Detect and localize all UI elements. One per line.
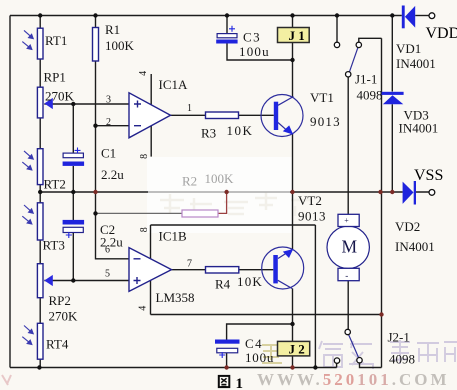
svg-text:J1-1: J1-1	[355, 72, 377, 87]
svg-text:VD1: VD1	[396, 41, 421, 56]
svg-text:9013: 9013	[298, 209, 326, 224]
svg-text:M: M	[342, 237, 358, 257]
svg-text:J 2: J 2	[289, 342, 305, 357]
svg-text:R2: R2	[182, 174, 197, 189]
svg-text:2.2u: 2.2u	[101, 167, 124, 182]
svg-text:J 1: J 1	[289, 28, 305, 43]
svg-text:100K: 100K	[105, 38, 135, 53]
svg-text:6: 6	[105, 245, 110, 256]
svg-text:RT3: RT3	[43, 238, 65, 253]
svg-text:9013: 9013	[310, 114, 341, 129]
svg-text:270K: 270K	[49, 309, 79, 324]
svg-text:WWW.520101.COM: WWW.520101.COM	[257, 370, 450, 389]
svg-text:VSS: VSS	[414, 167, 443, 184]
svg-text:1: 1	[236, 376, 244, 390]
svg-text:IC1A: IC1A	[159, 77, 189, 92]
svg-text:R1: R1	[105, 22, 120, 37]
svg-text:IN4001: IN4001	[395, 239, 435, 254]
svg-text:10K: 10K	[227, 123, 254, 138]
svg-text:C4: C4	[245, 336, 263, 351]
svg-text:4098: 4098	[357, 88, 383, 103]
svg-text:5: 5	[105, 269, 110, 280]
svg-text:4: 4	[138, 71, 149, 76]
svg-text:VDD: VDD	[426, 25, 457, 42]
svg-text:7: 7	[187, 259, 192, 270]
svg-text:IN4001: IN4001	[399, 121, 439, 136]
svg-text:2: 2	[106, 117, 111, 128]
svg-text:3: 3	[106, 95, 111, 106]
svg-text:4: 4	[138, 306, 149, 311]
svg-text:VT1: VT1	[310, 90, 334, 105]
svg-text:C1: C1	[101, 146, 116, 161]
svg-text:100u: 100u	[245, 350, 274, 365]
svg-text:100K: 100K	[205, 171, 235, 186]
svg-text:R4: R4	[215, 277, 231, 292]
svg-text:100u: 100u	[239, 44, 270, 59]
svg-text:RT4: RT4	[46, 337, 69, 352]
svg-text:RP1: RP1	[44, 70, 66, 85]
svg-text:LM358: LM358	[156, 290, 195, 305]
svg-text:RP2: RP2	[49, 293, 71, 308]
svg-text:+: +	[344, 216, 349, 225]
svg-text:J2-1: J2-1	[388, 330, 410, 345]
svg-text:VD2: VD2	[395, 219, 420, 234]
svg-text:8: 8	[139, 227, 150, 232]
svg-text:270K: 270K	[45, 89, 75, 104]
svg-text:4098: 4098	[389, 352, 415, 367]
svg-text:RT2: RT2	[44, 177, 66, 192]
svg-text:IC1B: IC1B	[159, 229, 188, 244]
svg-text:R3: R3	[201, 126, 216, 141]
svg-text:RT1: RT1	[45, 33, 67, 48]
svg-text:1: 1	[187, 103, 192, 114]
svg-text:10K: 10K	[237, 274, 263, 289]
svg-text:VT2: VT2	[298, 193, 322, 208]
svg-text:C3: C3	[243, 30, 261, 45]
svg-text:2.2u: 2.2u	[100, 235, 123, 250]
svg-text:-: -	[345, 271, 348, 281]
svg-text:8: 8	[139, 154, 150, 159]
svg-text:IN4001: IN4001	[396, 56, 436, 71]
